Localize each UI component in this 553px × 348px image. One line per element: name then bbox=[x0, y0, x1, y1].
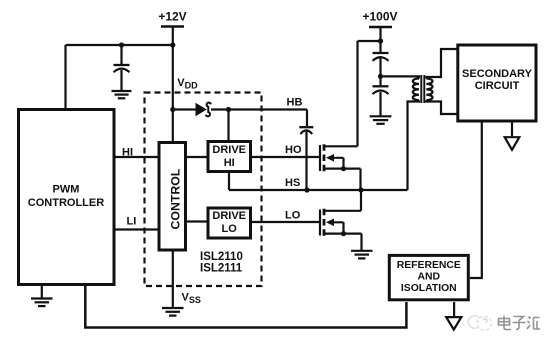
svg-text:CONTROLLER: CONTROLLER bbox=[28, 197, 104, 209]
svg-text:ISL2110: ISL2110 bbox=[200, 251, 243, 263]
svg-text:HI: HI bbox=[122, 147, 133, 159]
svg-text:CIRCUIT: CIRCUIT bbox=[475, 80, 520, 92]
svg-text:SECONDARY: SECONDARY bbox=[462, 68, 533, 80]
svg-text:+12V: +12V bbox=[158, 10, 186, 24]
svg-text:ISOLATION: ISOLATION bbox=[401, 283, 457, 294]
svg-text:LI: LI bbox=[127, 216, 137, 228]
svg-text:LO: LO bbox=[222, 223, 238, 235]
svg-text:HI: HI bbox=[224, 157, 235, 169]
svg-text:DRIVE: DRIVE bbox=[212, 144, 246, 156]
svg-text:CONTROL: CONTROL bbox=[169, 168, 183, 229]
svg-text:ISL2111: ISL2111 bbox=[200, 263, 243, 275]
svg-text:REFERENCE: REFERENCE bbox=[397, 260, 461, 271]
svg-text:HO: HO bbox=[285, 144, 302, 156]
svg-text:DRIVE: DRIVE bbox=[212, 210, 246, 222]
svg-text:+100V: +100V bbox=[362, 10, 397, 24]
svg-text:LO: LO bbox=[285, 210, 301, 222]
svg-text:HS: HS bbox=[285, 177, 300, 189]
svg-text:PWM: PWM bbox=[53, 184, 80, 196]
svg-text:HB: HB bbox=[287, 97, 303, 109]
svg-text:AND: AND bbox=[418, 272, 441, 283]
